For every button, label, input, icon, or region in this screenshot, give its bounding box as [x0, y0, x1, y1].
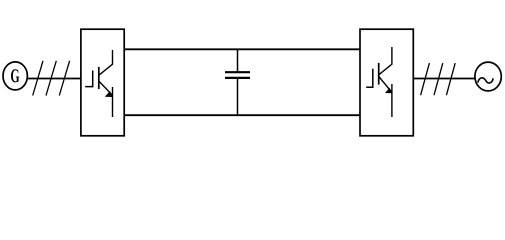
- capacitor C bottom plate: [225, 77, 250, 79]
- bottom DC rail: [125, 114, 360, 116]
- left IGBT gate bar: [85, 71, 93, 87]
- left IGBT emitter arrowhead: [105, 91, 113, 97]
- right IGBT main bar: [378, 63, 380, 85]
- left IGBT collector lead: [99, 50, 113, 75]
- right IGBT emitter diagonal: [379, 77, 392, 93]
- generator G1 circle: [3, 62, 27, 90]
- three-phase slash 3 (right): [446, 63, 455, 95]
- top DC rail: [125, 48, 360, 50]
- converter box right (inverter): [360, 29, 413, 136]
- capacitor C top wire: [237, 49, 239, 72]
- capacitor C bottom wire: [237, 78, 239, 115]
- three-phase slash 1 (left): [33, 61, 43, 96]
- wire: generator to left converter: [27, 78, 81, 80]
- three-phase slash 2 (right): [434, 63, 443, 95]
- right IGBT collector lead: [379, 47, 392, 75]
- AC source sine symbol: [478, 78, 493, 83]
- left IGBT main bar: [98, 67, 100, 89]
- converter box left (rectifier): [81, 29, 124, 136]
- generator G1 label: [11, 69, 19, 82]
- left IGBT emitter diagonal: [99, 81, 112, 95]
- right IGBT emitter arrowhead: [385, 88, 392, 94]
- three-phase slash 1 (right): [421, 63, 430, 95]
- wire: right converter to AC source: [413, 78, 475, 80]
- right IGBT gate bar: [366, 69, 373, 87]
- AC source circle: [475, 62, 501, 91]
- left IGBT emitter lead: [112, 87, 114, 117]
- three-phase slash 2 (left): [46, 61, 56, 96]
- right IGBT emitter lead: [391, 84, 393, 117]
- three-phase slash 3 (left): [59, 61, 69, 96]
- capacitor C top plate: [225, 71, 250, 73]
